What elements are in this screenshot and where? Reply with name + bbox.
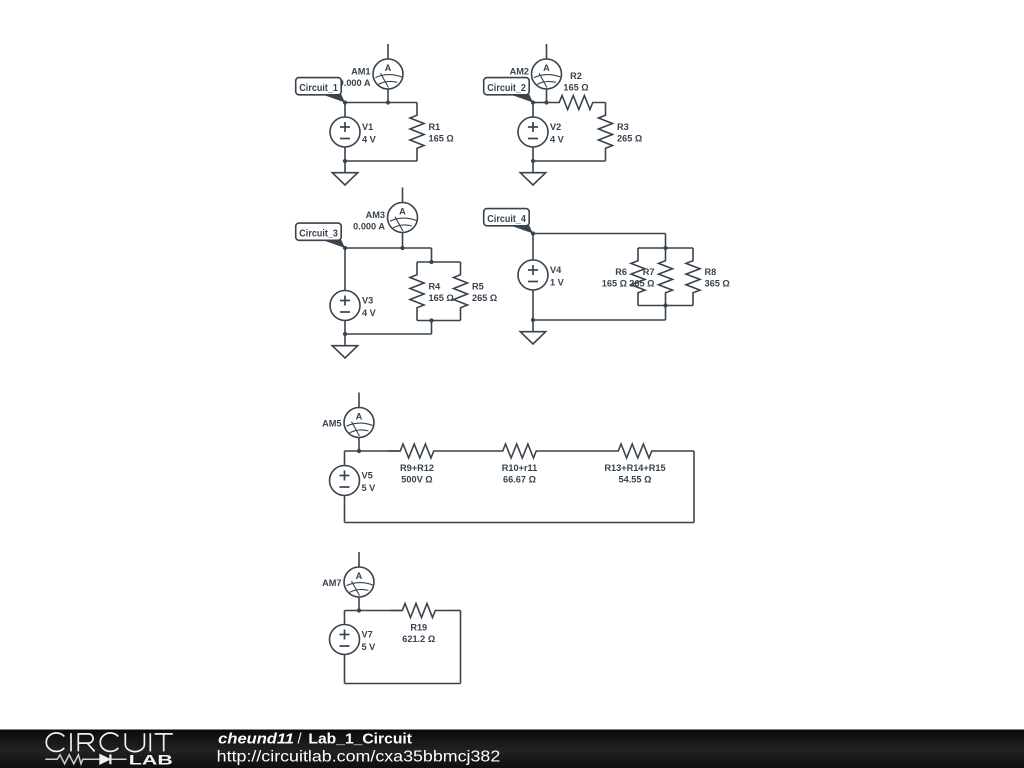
label R1 165 &#937; <box>429 122 454 144</box>
svg-text:Circuit_4: Circuit_4 <box>487 214 526 225</box>
resistor R5 <box>454 262 468 321</box>
svg-text:R19: R19 <box>410 622 427 632</box>
svg-text:Circuit_1: Circuit_1 <box>299 83 338 94</box>
CircuitLab logo wordmark CIRCUIT <box>46 733 173 752</box>
svg-text:AM3: AM3 <box>366 210 385 220</box>
svg-text:R10+r11: R10+r11 <box>502 463 538 473</box>
resistor R7 <box>659 248 673 306</box>
svg-text:AM5: AM5 <box>322 419 341 429</box>
node junction circuit 3 ground <box>343 332 347 336</box>
label AM1 reading 0.000 A (drawn before flag overlay) <box>339 66 371 88</box>
ground <box>520 161 545 185</box>
node junction circuit 1 top-left <box>343 100 347 104</box>
wire top rail left segment <box>345 450 401 452</box>
node junction AM2 <box>544 100 548 104</box>
label R19 621.2 &#937; <box>402 622 435 644</box>
resistor R6 <box>631 248 645 306</box>
label V1 4 V <box>362 122 377 144</box>
wire ammeter AM5 top stub <box>358 393 360 408</box>
label R4 165 &#937; <box>429 282 454 304</box>
resistor R19 <box>390 604 449 618</box>
label R6 165 &#937; <box>602 267 627 289</box>
wire between R9+R12 and R10+r11 <box>447 450 491 452</box>
wire AM2 to node <box>546 89 548 103</box>
resistor R13+R14+R15 <box>606 444 665 458</box>
node junction trio bottom <box>663 303 667 307</box>
voltage source V7 <box>330 625 360 655</box>
wire parallel trio bottom bar <box>638 305 693 307</box>
svg-text:165 Ω: 165 Ω <box>429 134 454 144</box>
svg-text:4 V: 4 V <box>362 134 377 144</box>
node junction circuit 2 top-left <box>531 100 535 104</box>
wire parallel bottom bar <box>417 320 461 322</box>
ammeter AM3 <box>388 203 418 233</box>
net flag Circuit_3 <box>296 223 345 248</box>
svg-text:V5: V5 <box>362 471 373 481</box>
svg-text:R13+R14+R15: R13+R14+R15 <box>604 463 665 473</box>
wire to right rail <box>665 450 695 452</box>
svg-text:4 V: 4 V <box>362 308 377 318</box>
CircuitLab logo resistor-diode glyph <box>45 754 126 764</box>
wire right rail circuit 5 <box>693 451 695 523</box>
wire ammeter AM2 top stub <box>546 44 548 59</box>
resistor R10+r11 <box>490 444 549 458</box>
label V5 5 V <box>362 471 377 493</box>
label R5 265 &#937; <box>472 282 497 304</box>
label V4 1 V <box>550 265 565 287</box>
wire ammeter AM7 top stub <box>358 552 360 567</box>
label R2 165 &#937; <box>563 71 588 92</box>
resistor R9+R12 <box>388 444 447 458</box>
svg-text:cheund11: cheund11 <box>218 731 294 747</box>
svg-text:V1: V1 <box>362 122 373 132</box>
node junction parallel top <box>429 260 433 264</box>
wire corner to V7 <box>344 611 346 625</box>
wire bottom rail circuit 4 <box>533 319 666 321</box>
label R8 365 &#937; <box>705 267 730 289</box>
wire V2 to bottom <box>532 147 534 161</box>
svg-text:165 Ω: 165 Ω <box>602 279 627 289</box>
node junction AM1 <box>386 100 390 104</box>
svg-text:R1: R1 <box>429 122 441 132</box>
svg-text:A: A <box>356 571 363 581</box>
wire parallel trio top bar <box>638 247 693 249</box>
svg-text:5 V: 5 V <box>362 642 377 652</box>
resistor R8 <box>686 248 700 306</box>
wire ammeter AM1 top stub <box>387 44 389 59</box>
svg-text:Lab_1_Circuit: Lab_1_Circuit <box>308 731 412 747</box>
wire drop to parallel trio <box>665 234 667 249</box>
node junction parallel bottom <box>429 318 433 322</box>
wire AM3 to node <box>402 233 404 249</box>
ammeter AM1 <box>373 59 403 89</box>
voltage source V1 <box>330 117 360 147</box>
svg-text:A: A <box>543 63 550 73</box>
node junction circuit 2 ground <box>531 159 535 163</box>
svg-text:A: A <box>356 411 363 421</box>
net flag Circuit_1 <box>296 78 345 103</box>
wire corner to V5 <box>344 451 346 466</box>
wire bottom rail circuit 3 <box>345 333 432 335</box>
node junction AM7 <box>357 608 361 612</box>
resistor R4 <box>410 262 424 321</box>
wire AM7 to node <box>358 597 360 611</box>
node junction circuit 1 ground <box>343 159 347 163</box>
wire top rail left segment circuit 7 <box>345 610 403 612</box>
wire R19 to right rail <box>448 610 461 612</box>
svg-text:54.55 Ω: 54.55 Ω <box>619 474 652 484</box>
svg-text:AM7: AM7 <box>322 578 341 588</box>
svg-text:R6: R6 <box>615 267 627 277</box>
voltage source V5 <box>330 466 360 496</box>
svg-text:165 Ω: 165 Ω <box>429 293 454 303</box>
voltage source V4 <box>518 260 548 290</box>
wire bottom rail circuit 5 <box>345 522 695 524</box>
label AM3 reading <box>353 210 385 232</box>
wire right rail circuit 7 <box>460 611 462 684</box>
svg-text:R8: R8 <box>705 267 717 277</box>
wire top rail circuit 3 <box>345 247 432 249</box>
svg-text:A: A <box>385 63 392 73</box>
label R9+R12 500V &#937; <box>400 463 434 485</box>
ammeter AM5 <box>344 408 374 438</box>
svg-text:R9+R12: R9+R12 <box>400 463 434 473</box>
svg-text:V2: V2 <box>550 122 561 132</box>
label V3 4 V <box>362 296 377 318</box>
resistor R2 <box>547 96 606 110</box>
wire V4 to bottom <box>532 290 534 320</box>
svg-text:66.67 Ω: 66.67 Ω <box>503 474 536 484</box>
svg-text:165 Ω: 165 Ω <box>563 83 588 93</box>
label R7 265 &#937; <box>629 267 654 289</box>
svg-text:http://circuitlab.com/cxa35bbm: http://circuitlab.com/cxa35bbmcj382 <box>217 748 501 765</box>
node junction circuit 3 top-left <box>343 246 347 250</box>
svg-text:R5: R5 <box>472 282 484 292</box>
wire AM1 to node <box>387 89 389 103</box>
wire node to V2 <box>532 103 534 118</box>
voltage source V3 <box>330 291 360 321</box>
label R3 265 &#937; <box>617 122 642 144</box>
svg-text:V7: V7 <box>362 630 373 640</box>
svg-text:V4: V4 <box>550 265 562 275</box>
svg-text:0.000 A: 0.000 A <box>353 221 385 231</box>
label V7 5 V <box>362 630 377 652</box>
svg-text:621.2 Ω: 621.2 Ω <box>402 634 435 644</box>
wire top rail circuit 4 <box>533 233 666 235</box>
ground <box>520 320 545 344</box>
svg-text:265 Ω: 265 Ω <box>472 293 497 303</box>
wire V5 to bottom <box>344 496 346 523</box>
voltage source V2 <box>518 117 548 147</box>
svg-text:4 V: 4 V <box>550 134 565 144</box>
svg-text:0.000 A: 0.000 A <box>339 78 371 88</box>
svg-text:265 Ω: 265 Ω <box>617 134 642 144</box>
svg-text:V3: V3 <box>362 296 373 306</box>
wire parallel top bar <box>417 261 461 263</box>
ammeter AM7 <box>344 567 374 597</box>
wire AM5 to node <box>358 438 360 452</box>
wire ammeter AM3 top stub <box>402 188 404 203</box>
svg-text:1 V: 1 V <box>550 277 565 287</box>
wire between R10+r11 and R13+R14+R15 <box>549 450 606 452</box>
svg-text:365 Ω: 365 Ω <box>705 279 730 289</box>
svg-text:R2: R2 <box>570 71 582 81</box>
net flag Circuit_2 <box>484 78 533 103</box>
svg-text:AM2: AM2 <box>510 66 529 76</box>
ammeter AM2 <box>532 59 562 89</box>
svg-text:LAB: LAB <box>129 752 173 767</box>
svg-text:R4: R4 <box>429 282 442 292</box>
node junction AM5 <box>357 449 361 453</box>
resistor R1 <box>410 103 424 162</box>
resistor R3 <box>599 103 613 162</box>
svg-text:500V Ω: 500V Ω <box>401 474 432 484</box>
wire bottom rail circuit 2 <box>533 160 606 162</box>
wire node to V3 <box>344 248 346 291</box>
wire V7 to bottom <box>344 655 346 684</box>
wire top rail circuit 1 <box>345 102 417 104</box>
svg-text:R3: R3 <box>617 122 629 132</box>
label AM2 reading 0.000 A (drawn before flag overlay) <box>497 66 529 88</box>
wire bottom rail circuit 7 <box>345 683 461 685</box>
svg-text:Circuit_3: Circuit_3 <box>299 229 338 240</box>
svg-text:A: A <box>399 206 406 216</box>
svg-text:AM1: AM1 <box>351 66 370 76</box>
ground <box>332 161 357 185</box>
wire top-left rail circuit 2 <box>533 102 548 104</box>
wire V1 to bottom <box>344 147 346 161</box>
net flag Circuit_4 <box>484 209 533 234</box>
wire node to V1 <box>344 103 346 118</box>
footer bar background <box>0 730 1024 768</box>
svg-text:265 Ω: 265 Ω <box>629 279 654 289</box>
svg-text:5 V: 5 V <box>362 483 377 493</box>
ground <box>332 334 357 358</box>
node junction AM3 <box>400 246 404 250</box>
wire drop to parallel pair <box>431 248 433 262</box>
svg-text:R7: R7 <box>643 267 655 277</box>
label R13+R14+R15 54.55 &#937; <box>604 463 665 485</box>
svg-text:Circuit_2: Circuit_2 <box>487 83 526 94</box>
wire node to V4 <box>532 234 534 261</box>
label R10+r11 66.67 &#937; <box>502 463 538 485</box>
wire parallel trio to bottom <box>665 306 667 321</box>
node junction trio top <box>663 246 667 250</box>
wire parallel pair to bottom <box>431 321 433 335</box>
wire V3 to bottom <box>344 321 346 335</box>
label V2 4 V <box>550 122 565 144</box>
node junction circuit 4 ground <box>531 318 535 322</box>
wire bottom rail circuit 1 <box>345 160 417 162</box>
node junction circuit 4 top-left <box>531 231 535 235</box>
